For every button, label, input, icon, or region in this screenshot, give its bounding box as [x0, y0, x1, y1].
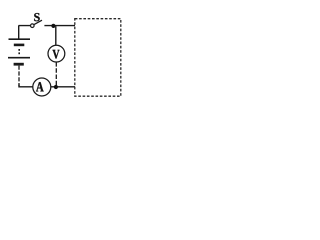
battery B1: [8, 39, 30, 64]
switch S: [31, 24, 35, 28]
node top junction: [51, 24, 55, 28]
voltmeter V1: [48, 45, 65, 62]
dashed component box: [75, 19, 121, 97]
wire voltmeter top branch: [55, 26, 57, 45]
wire battery top to switch: [19, 26, 31, 39]
wire battery bottom stub: [18, 66, 20, 87]
node bottom junction: [54, 85, 58, 89]
wire bottom-left to ammeter: [19, 85, 33, 87]
wire ammeter to junction to box: [51, 86, 75, 88]
wire voltmeter bottom branch: [55, 62, 57, 85]
wire switch to box: [44, 25, 75, 27]
ammeter A1: [33, 78, 51, 96]
